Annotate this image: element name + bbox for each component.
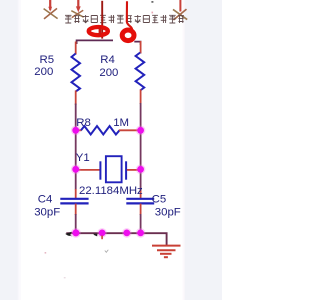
wire right rail [140, 103, 142, 190]
resistor R4 pin top [140, 41, 142, 54]
crystal Y1 plate left [99, 161, 101, 179]
resistor R5 [72, 54, 81, 92]
svg-text:R4: R4 [100, 54, 115, 66]
svg-text:200: 200 [34, 66, 53, 78]
capacitor C4 plates [60, 198, 88, 200]
wire top-right horizontal to MCU pin [134, 42, 140, 45]
crystal Y1 plate right [125, 161, 127, 179]
junction dot halos [71, 126, 146, 238]
wire left rail [75, 104, 77, 190]
black tick mark on bus [93, 234, 98, 237]
resistor R4 pin bottom [140, 90, 142, 105]
wire bottom ground bus [66, 233, 166, 246]
resistor R5 pin top [75, 42, 77, 55]
junction dots [72, 127, 144, 236]
annotation arrow marker 1 [44, 0, 58, 19]
resistor R8 pin right [119, 129, 141, 131]
annotation arrow marker 3 [173, 0, 187, 20]
svg-text:200: 200 [99, 67, 118, 79]
capacitor C5 plates [126, 198, 154, 200]
capacitor C5 pin top [140, 189, 142, 199]
resistor R4 [136, 53, 145, 91]
annotation long red line to left pin [101, 1, 103, 39]
svg-text:R5: R5 [40, 54, 55, 66]
svg-text:1M: 1M [113, 117, 129, 129]
svg-text:30pF: 30pF [155, 206, 181, 218]
annotation circle right [122, 30, 134, 41]
wire left rail lower [75, 214, 77, 233]
resistor R5 pin bottom [75, 91, 77, 106]
resistor R8 pin left [76, 129, 82, 131]
capacitor C5 pin bottom [140, 204, 142, 215]
crystal Y1 pin right [127, 169, 141, 171]
annotation circle right tail [127, 1, 132, 30]
wire right rail lower [140, 214, 142, 233]
svg-text:C4: C4 [38, 193, 53, 205]
stub under node [101, 236, 103, 240]
svg-text:R8: R8 [76, 117, 91, 129]
speck top [151, 1, 153, 3]
annotation circle left [89, 27, 108, 35]
black arrow mark left of bus [65, 232, 72, 236]
resistor R8 [81, 126, 120, 135]
capacitor C4 pin bottom [75, 204, 77, 215]
crystal Y1 pin left [76, 169, 100, 171]
svg-text:C5: C5 [152, 194, 167, 206]
ground [152, 246, 181, 258]
svg-text:30pF: 30pF [34, 207, 60, 219]
svg-text:22.1184MHz: 22.1184MHz [79, 185, 143, 197]
faint specks bottom [105, 250, 109, 253]
capacitor C4 pin top [75, 189, 77, 199]
chinese note text (simulated strokes) [65, 15, 184, 23]
svg-text:Y1: Y1 [76, 152, 90, 164]
wire top-left horizontal to MCU pin [77, 40, 113, 44]
crystal Y1 body [106, 156, 122, 182]
annotation arrow marker 2 [71, 0, 83, 18]
